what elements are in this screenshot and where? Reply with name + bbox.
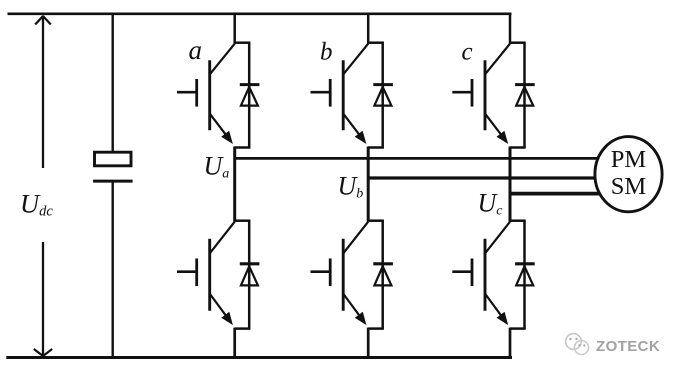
wire: capacitor top lead: [111, 13, 113, 152]
wire: b-bottom emitter corner: [368, 327, 384, 330]
svg-text:b: b: [320, 39, 333, 66]
svg-text:Udc: Udc: [20, 188, 53, 219]
wire: leg a to bottom rail: [233, 328, 236, 358]
wire: top DC bus rail: [8, 12, 512, 15]
wire: c-bottom collector corner: [510, 219, 526, 222]
Udc measurement arrowhead up: [35, 16, 43, 25]
transistor IGBT b-bottom: [311, 222, 369, 325]
diode c-top (anti-parallel): [515, 43, 535, 148]
svg-text:ZOTECK: ZOTECK: [596, 338, 660, 355]
wire: leg b to bottom rail: [367, 328, 370, 358]
diode c-bottom (anti-parallel): [515, 221, 535, 329]
svg-text:Ub: Ub: [338, 171, 364, 201]
Udc measurement arrow lower shaft: [42, 242, 44, 356]
wire: c-bottom emitter corner: [510, 327, 526, 330]
diode b-bottom (anti-parallel): [373, 221, 393, 329]
wire: c-top collector corner: [510, 41, 526, 44]
wire: leg a midpoint (node Ua): [233, 147, 236, 222]
wire: b-bottom collector corner: [368, 219, 384, 222]
diode a-top (anti-parallel): [240, 43, 260, 148]
svg-text:a: a: [189, 35, 203, 65]
svg-text:c: c: [462, 39, 473, 66]
wire: leg c from top rail: [509, 13, 512, 44]
watermark icon (two circles): [566, 334, 589, 355]
wire: phase c output line: [509, 192, 604, 196]
svg-text:PM: PM: [611, 146, 647, 173]
wire: capacitor bottom lead: [111, 181, 113, 357]
svg-text:SM: SM: [611, 173, 647, 200]
wire: b-top collector corner: [368, 41, 384, 44]
wire: leg c midpoint (node Uc): [509, 147, 512, 222]
wire: a-bottom collector corner: [235, 219, 251, 222]
svg-text:Uc: Uc: [478, 188, 504, 218]
wire: leg b from top rail: [367, 13, 370, 44]
wire: a-top collector corner: [235, 41, 251, 44]
diode a-bottom (anti-parallel): [240, 221, 260, 329]
Udc measurement arrowhead down: [34, 349, 43, 356]
transistor IGBT a-bottom: [177, 222, 235, 325]
transistor IGBT b-top: [311, 44, 369, 144]
transistor IGBT c-top: [452, 44, 510, 144]
diode b-top (anti-parallel): [373, 43, 393, 148]
transistor IGBT c-bottom: [452, 222, 510, 325]
wire: c-top emitter corner: [510, 146, 526, 149]
wire: a-top emitter corner: [235, 146, 251, 149]
wire: phase b output line: [367, 176, 600, 179]
wire: phase a output line: [235, 157, 601, 160]
transistor IGBT a-top: [177, 44, 235, 144]
motor PM SM circle: [595, 137, 662, 212]
svg-text:Ua: Ua: [204, 151, 230, 181]
wire: leg c to bottom rail: [509, 328, 512, 358]
Udc measurement arrow upper shaft: [42, 16, 44, 169]
capacitor C bottom plate: [93, 180, 133, 183]
wire: leg a from top rail: [233, 13, 236, 44]
wire: bottom DC bus rail: [6, 356, 512, 359]
capacitor C top plate (box): [95, 152, 132, 166]
wire: leg b midpoint (node Ub): [367, 147, 370, 222]
wire: a-bottom emitter corner: [235, 327, 251, 330]
wire: b-top emitter corner: [368, 146, 384, 149]
